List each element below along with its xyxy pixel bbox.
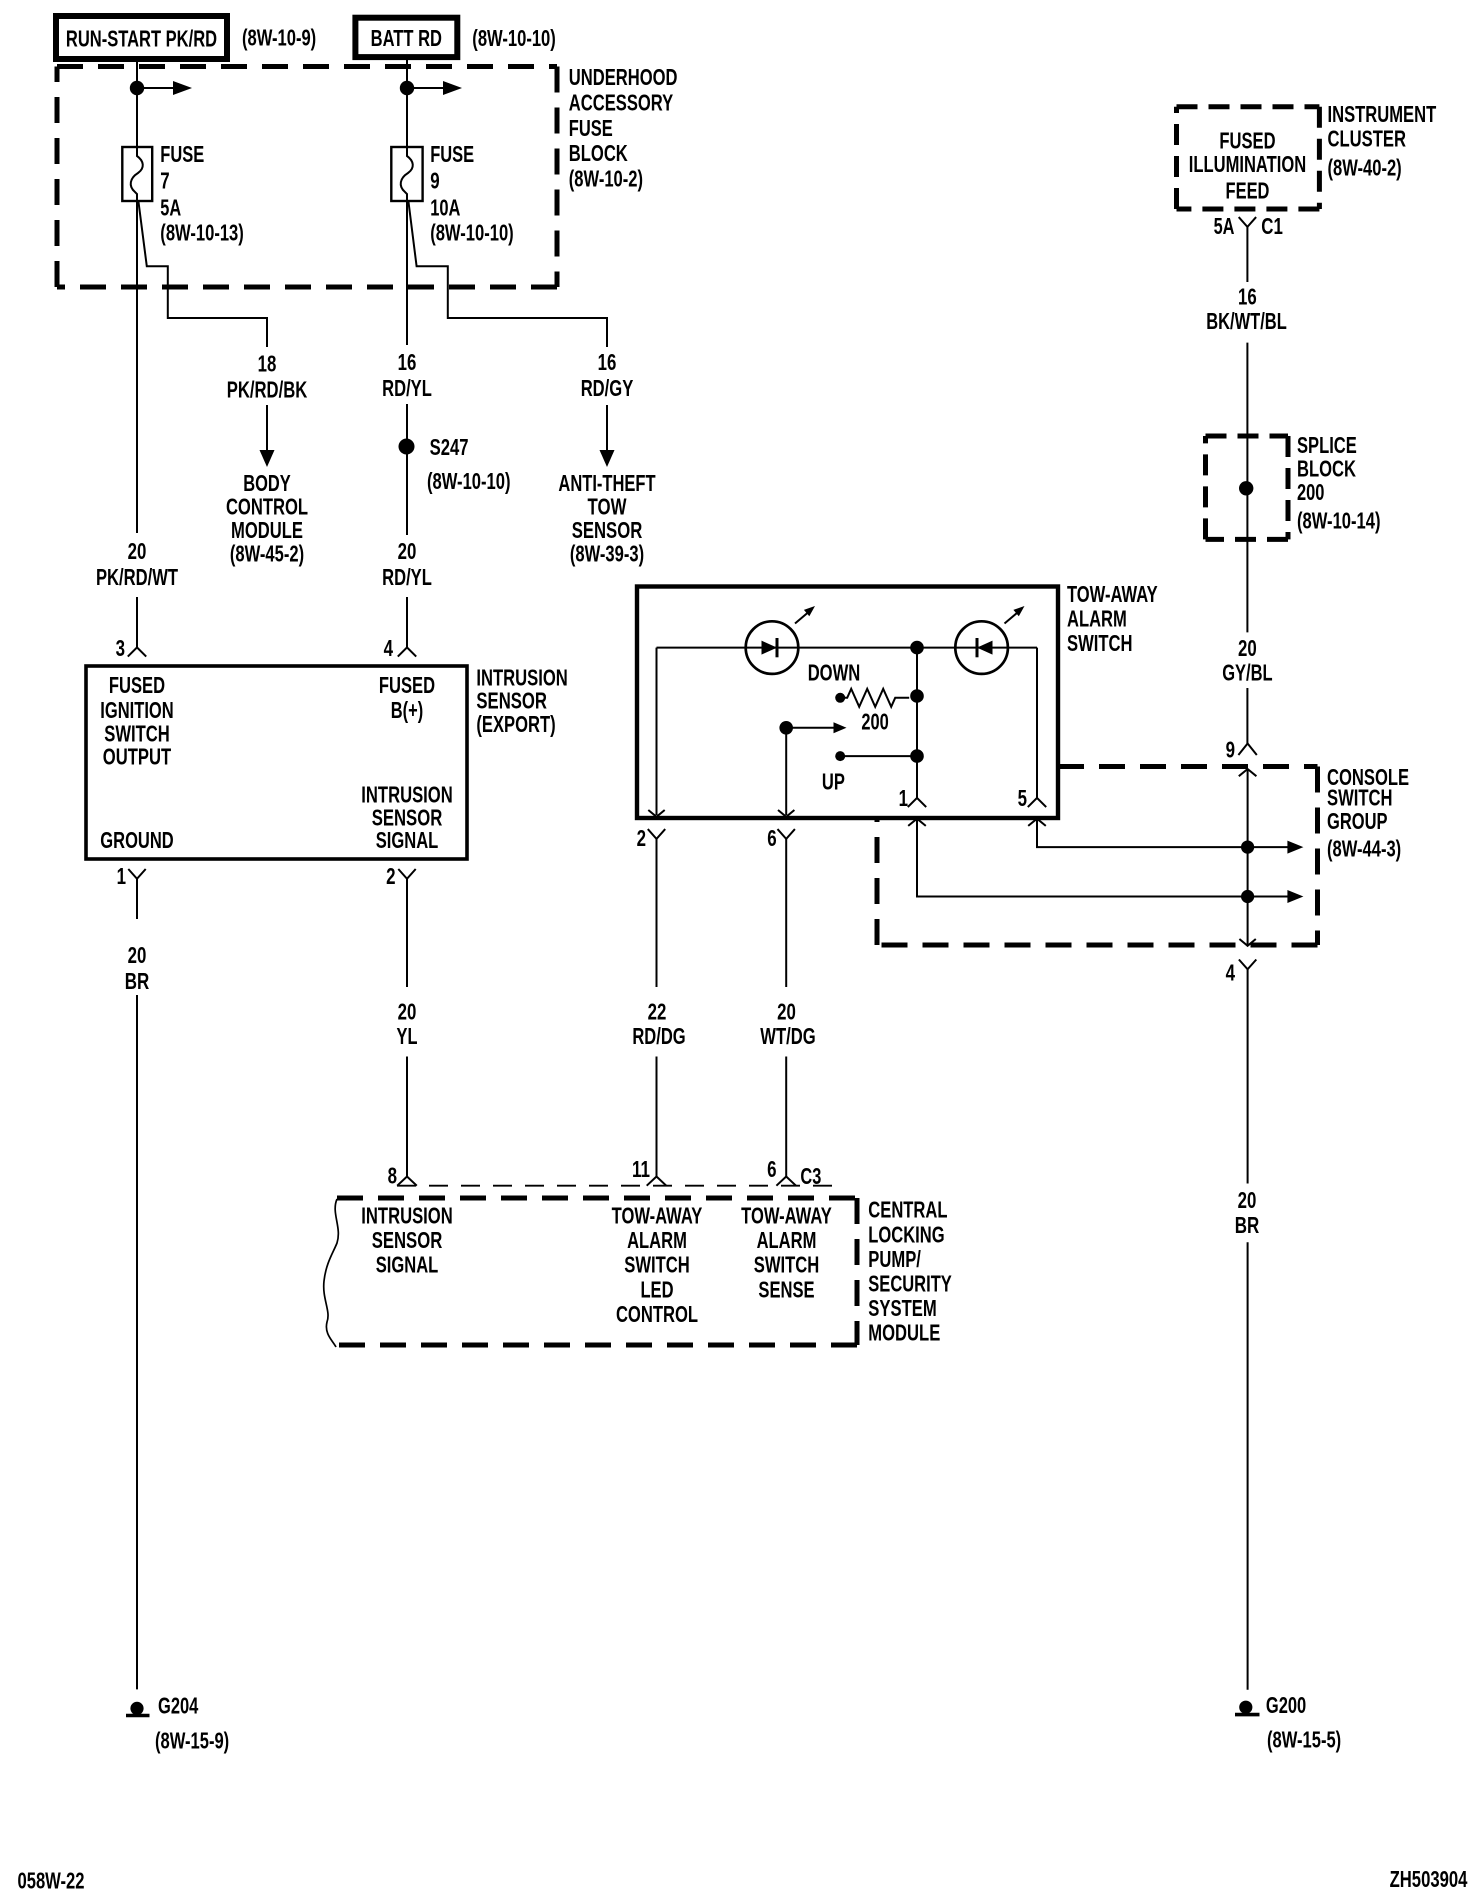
svg-text:FUSE: FUSE — [430, 141, 474, 167]
indicator lamp right (LED) — [955, 606, 1024, 674]
svg-text:RD/DG: RD/DG — [632, 1023, 685, 1049]
svg-text:INSTRUMENT: INSTRUMENT — [1328, 101, 1437, 127]
svg-text:GROUP: GROUP — [1327, 808, 1388, 834]
svg-text:CLUSTER: CLUSTER — [1328, 126, 1407, 152]
svg-text:MODULE: MODULE — [231, 517, 303, 543]
svg-text:058W-22: 058W-22 — [18, 1868, 85, 1894]
svg-text:16: 16 — [1238, 284, 1257, 310]
label DOWN — [808, 660, 861, 686]
svg-text:20: 20 — [398, 999, 417, 1025]
power feed box BATT RD — [355, 18, 457, 57]
wire label 22 RD/DG — [632, 999, 685, 1050]
svg-text:10A: 10A — [430, 195, 460, 221]
svg-text:CONTROL: CONTROL — [616, 1301, 698, 1327]
resistor 200 — [835, 689, 924, 707]
wire label 20 BR — [125, 942, 150, 994]
label CONSOLE SWITCH GROUP (8W-44-3) — [1327, 764, 1409, 862]
pin 2 of tow-away switch — [637, 810, 666, 851]
power feed box RUN-START PK/RD — [56, 16, 227, 59]
svg-text:TOW-AWAY: TOW-AWAY — [741, 1203, 832, 1229]
svg-text:18: 18 — [258, 351, 277, 377]
svg-text:16: 16 — [398, 349, 417, 375]
svg-text:SENSE: SENSE — [758, 1277, 814, 1303]
underhood accessory fuse block (dashed) — [57, 67, 557, 288]
svg-text:SWITCH: SWITCH — [624, 1252, 690, 1278]
svg-text:200: 200 — [861, 709, 888, 735]
wire BATT feed into fuse block — [406, 57, 408, 147]
svg-text:LED: LED — [640, 1277, 673, 1303]
pin label FUSED B(+) — [379, 672, 435, 723]
svg-text:INTRUSION: INTRUSION — [361, 1203, 452, 1229]
wire label 20 GY/BL — [1222, 635, 1272, 686]
pin 1 of intrusion sensor — [117, 863, 146, 889]
pin label INTRUSION SENSOR SIGNAL — [361, 782, 452, 854]
label FUSE 7 5A (8W-10-13) — [160, 141, 244, 246]
arrow to body control module — [260, 405, 275, 467]
svg-text:RD/YL: RD/YL — [382, 564, 432, 590]
wire label 20 PK/RD/WT — [96, 538, 178, 590]
console switch group box (dashed) — [877, 767, 1318, 946]
svg-text:(8W-10-13): (8W-10-13) — [160, 220, 244, 246]
label INTRUSION SENSOR (EXPORT) — [476, 665, 567, 738]
wire label 16 RD/GY — [581, 349, 634, 401]
arrow to anti-theft tow sensor — [600, 405, 615, 467]
svg-text:YL: YL — [397, 1023, 418, 1049]
svg-text:B(+): B(+) — [391, 697, 423, 723]
svg-text:BLOCK: BLOCK — [569, 140, 628, 166]
intrusion sensor box — [86, 666, 467, 859]
svg-text:1: 1 — [117, 863, 127, 889]
wire intrusion pin 2 to central locking pin 8 — [406, 879, 408, 1177]
pin label INTRUSION SENSOR SIGNAL (module) — [361, 1203, 452, 1278]
wire intrusion pin 1 to ground — [136, 879, 138, 1690]
svg-text:SECURITY: SECURITY — [868, 1271, 952, 1297]
svg-text:OUTPUT: OUTPUT — [103, 744, 171, 770]
junction dot lower with arrow — [1241, 890, 1303, 903]
label SPLICE BLOCK 200 (8W-10-14) — [1297, 432, 1381, 534]
svg-text:FEED: FEED — [1226, 178, 1270, 204]
label INSTRUMENT CLUSTER (8W-40-2) — [1328, 101, 1437, 181]
pin 5 of tow-away switch — [1018, 785, 1047, 826]
svg-text:SWITCH: SWITCH — [754, 1252, 820, 1278]
pin 6 of central locking module C3 — [767, 1156, 821, 1189]
svg-text:BR: BR — [1235, 1212, 1260, 1238]
svg-text:CONTROL: CONTROL — [226, 494, 308, 520]
wire lamp row — [657, 647, 1038, 649]
svg-text:6: 6 — [767, 1156, 776, 1182]
wire UP contact row — [835, 749, 924, 763]
splice junction dot — [1239, 481, 1253, 495]
pin label TOW-AWAY ALARM SWITCH SENSE — [741, 1203, 832, 1303]
svg-text:(EXPORT): (EXPORT) — [476, 711, 555, 737]
svg-text:5: 5 — [1018, 785, 1028, 811]
wire tow-away pin 2 to central locking pin 11 — [656, 839, 658, 1177]
connector C1 pin 5A — [1214, 213, 1283, 239]
pin 9 of console switch group — [1226, 737, 1257, 777]
svg-text:20: 20 — [128, 942, 147, 968]
svg-text:(8W-10-2): (8W-10-2) — [569, 166, 643, 192]
svg-text:DOWN: DOWN — [808, 660, 861, 686]
svg-text:BODY: BODY — [243, 470, 291, 496]
svg-text:WT/DG: WT/DG — [760, 1023, 815, 1049]
tow-away alarm switch box — [637, 587, 1058, 819]
svg-text:ALARM: ALARM — [627, 1227, 687, 1253]
pin label GROUND — [100, 827, 173, 853]
reference (8W-10-9) — [242, 25, 316, 51]
reference (8W-10-10) — [472, 25, 556, 51]
svg-text:C3: C3 — [800, 1163, 821, 1189]
wire tow-away pin 5 to console group — [1037, 819, 1248, 847]
pin 3 of intrusion sensor — [116, 635, 147, 661]
connector C3 line (thin dashed) — [397, 1185, 838, 1187]
svg-text:ZH503904: ZH503904 — [1390, 1866, 1468, 1892]
wire label 16 BK/WT/BL — [1206, 284, 1287, 335]
wire label 16 RD/YL — [382, 349, 432, 401]
svg-text:PK/RD/WT: PK/RD/WT — [96, 564, 178, 590]
svg-text:TOW-AWAY: TOW-AWAY — [612, 1203, 703, 1229]
svg-text:3: 3 — [116, 635, 125, 661]
svg-text:RUN-START PK/RD: RUN-START PK/RD — [66, 26, 217, 52]
wire label 18 PK/RD/BK — [227, 351, 308, 403]
torn edge of central locking box — [324, 1199, 339, 1347]
wire to splice S247 — [406, 404, 408, 535]
svg-text:FUSE: FUSE — [160, 141, 204, 167]
svg-text:GY/BL: GY/BL — [1222, 660, 1272, 686]
svg-text:16: 16 — [598, 349, 617, 375]
svg-text:ILLUMINATION: ILLUMINATION — [1189, 151, 1306, 177]
wire tow-away pin 1 to console group — [917, 819, 1248, 897]
svg-text:S247: S247 — [430, 434, 469, 460]
svg-text:4: 4 — [384, 635, 394, 661]
sheet id 058W-22 — [18, 1868, 85, 1894]
svg-text:200: 200 — [1297, 479, 1324, 505]
svg-text:SWITCH: SWITCH — [1327, 785, 1393, 811]
svg-text:7: 7 — [160, 168, 169, 194]
svg-text:ACCESSORY: ACCESSORY — [569, 90, 673, 116]
svg-text:G200: G200 — [1266, 1692, 1306, 1718]
svg-text:SIGNAL: SIGNAL — [376, 827, 439, 853]
svg-text:20: 20 — [777, 999, 796, 1025]
svg-text:CENTRAL: CENTRAL — [868, 1197, 947, 1223]
svg-text:UNDERHOOD: UNDERHOOD — [569, 64, 678, 90]
label UP — [822, 769, 845, 795]
svg-text:(8W-15-9): (8W-15-9) — [155, 1728, 229, 1754]
svg-text:IGNITION: IGNITION — [100, 697, 173, 723]
wire label 20 RD/YL — [382, 538, 432, 590]
label G204 (8W-15-9) — [155, 1693, 229, 1754]
svg-text:GROUND: GROUND — [100, 827, 173, 853]
label ANTI-THEFT TOW SENSOR (8W-39-3) — [558, 470, 655, 567]
svg-text:SENSOR: SENSOR — [572, 517, 643, 543]
junction lamp row — [910, 641, 924, 655]
central locking module box (dashed) — [337, 1198, 857, 1345]
indicator lamp left (LED) — [746, 606, 815, 674]
ground G204 — [126, 1702, 150, 1716]
svg-text:ANTI-THEFT: ANTI-THEFT — [558, 470, 655, 496]
svg-text:RD/YL: RD/YL — [382, 375, 432, 401]
fuse F9 — [391, 147, 422, 201]
wire label 20 YL — [397, 999, 418, 1050]
svg-text:6: 6 — [767, 825, 776, 851]
svg-text:4: 4 — [1226, 960, 1236, 986]
svg-text:22: 22 — [648, 999, 667, 1025]
wire console pin 4 to ground — [1247, 969, 1249, 1689]
value label 200 — [861, 709, 888, 735]
svg-text:C1: C1 — [1261, 213, 1283, 239]
svg-text:9: 9 — [430, 168, 439, 194]
wire C1 down — [1246, 227, 1248, 282]
label S247 (8W-10-10) — [427, 434, 511, 494]
svg-text:RD/GY: RD/GY — [581, 375, 634, 401]
svg-text:(8W-10-9): (8W-10-9) — [242, 25, 316, 51]
svg-text:1: 1 — [899, 785, 909, 811]
splice S247 junction dot — [399, 439, 415, 455]
junction dot upper with arrow — [1241, 841, 1303, 854]
svg-text:FUSE: FUSE — [569, 115, 613, 141]
svg-text:G204: G204 — [158, 1693, 198, 1719]
label BODY CONTROL MODULE (8W-45-2) — [226, 470, 308, 567]
svg-text:MODULE: MODULE — [868, 1320, 940, 1346]
svg-text:UP: UP — [822, 769, 845, 795]
svg-text:PUMP/: PUMP/ — [868, 1246, 921, 1272]
svg-text:2: 2 — [637, 825, 646, 851]
label G200 (8W-15-5) — [1266, 1692, 1341, 1753]
svg-text:9: 9 — [1226, 737, 1235, 763]
label CENTRAL LOCKING PUMP/ SECURITY SYSTEM MODULE — [868, 1197, 952, 1346]
label UNDERHOOD ACCESSORY FUSE BLOCK (8W-10-2) — [569, 64, 678, 192]
svg-text:(8W-40-2): (8W-40-2) — [1328, 155, 1402, 181]
svg-text:(8W-45-2): (8W-45-2) — [230, 541, 304, 567]
wire fuse F7 to intrusion sensor pin 3 — [136, 201, 138, 647]
svg-text:ALARM: ALARM — [757, 1227, 817, 1253]
svg-text:LOCKING: LOCKING — [868, 1222, 944, 1248]
svg-text:5A: 5A — [1214, 213, 1235, 239]
svg-text:20: 20 — [128, 538, 147, 564]
svg-text:SPLICE: SPLICE — [1297, 432, 1357, 458]
pin 2 of intrusion sensor — [386, 863, 416, 889]
svg-text:(8W-10-10): (8W-10-10) — [430, 220, 514, 246]
svg-text:20: 20 — [1238, 635, 1257, 661]
svg-text:BK/WT/BL: BK/WT/BL — [1206, 308, 1287, 334]
svg-text:20: 20 — [1238, 1187, 1257, 1213]
svg-text:SENSOR: SENSOR — [372, 1227, 443, 1253]
svg-text:(8W-10-10): (8W-10-10) — [472, 25, 556, 51]
fuse F7 — [122, 147, 152, 201]
branch wire fuse F9 to anti-theft tow sensor — [409, 202, 608, 347]
wire tow-away pin 6 to central locking pin 6 — [785, 839, 787, 1177]
wire label 20 WT/DG — [760, 999, 815, 1050]
splice block 200 box (dashed) — [1206, 436, 1289, 539]
svg-text:(8W-44-3): (8W-44-3) — [1327, 836, 1401, 862]
pin label FUSED IGNITION SWITCH OUTPUT — [100, 672, 173, 770]
svg-text:BLOCK: BLOCK — [1297, 456, 1356, 482]
svg-text:SIGNAL: SIGNAL — [376, 1252, 439, 1278]
wire to console pin 9 — [1246, 688, 1248, 744]
svg-text:SYSTEM: SYSTEM — [868, 1295, 936, 1321]
label FUSED ILLUMINATION FEED — [1189, 128, 1306, 204]
branch wire fuse F7 to body control module — [139, 202, 268, 347]
svg-text:SENSOR: SENSOR — [476, 688, 547, 714]
pin 6 of tow-away switch — [767, 810, 795, 851]
wire to intrusion sensor pin 4 — [406, 597, 408, 647]
svg-text:BR: BR — [125, 968, 150, 994]
pin 8 of central locking module — [388, 1163, 417, 1189]
svg-text:(8W-10-14): (8W-10-14) — [1297, 508, 1381, 534]
pin 11 of central locking module — [632, 1156, 666, 1186]
pin label TOW-AWAY ALARM SWITCH LED CONTROL — [612, 1203, 703, 1328]
svg-text:SWITCH: SWITCH — [1067, 630, 1133, 656]
svg-text:TOW-AWAY: TOW-AWAY — [1067, 581, 1158, 607]
wire common vertical to pin 1 — [916, 648, 918, 798]
svg-text:ALARM: ALARM — [1067, 606, 1127, 632]
pin 4 of console switch group — [1226, 939, 1257, 986]
label TOW-AWAY ALARM SWITCH — [1067, 581, 1158, 656]
ground G200 — [1235, 1701, 1260, 1715]
svg-text:TOW: TOW — [588, 494, 627, 520]
junction dot with feed arrow (batt) — [400, 81, 462, 95]
wire to splice block — [1246, 343, 1248, 633]
svg-text:BATT RD: BATT RD — [371, 25, 442, 51]
svg-text:FUSED: FUSED — [1219, 128, 1275, 154]
svg-text:11: 11 — [632, 1156, 650, 1182]
svg-text:5A: 5A — [160, 195, 181, 221]
pin 1 of tow-away switch — [899, 785, 927, 826]
wire wiper vertical to pin 6 — [785, 728, 787, 815]
instrument cluster box (dashed) — [1177, 107, 1320, 209]
wire lamp row to pin 5 — [1036, 648, 1038, 798]
junction dot with feed arrow (run-start) — [130, 81, 192, 95]
wire label 20 BR (right) — [1235, 1187, 1260, 1238]
wire fuse F9 down — [406, 201, 408, 345]
switch wiper junction and arrow — [779, 721, 846, 735]
wire console internal — [1247, 769, 1249, 945]
svg-text:(8W-15-5): (8W-15-5) — [1267, 1727, 1341, 1753]
sheet id ZH503904 — [1390, 1866, 1468, 1892]
svg-text:FUSED: FUSED — [379, 672, 435, 698]
wire lamp row to pin 2 — [656, 648, 658, 815]
pin 4 of intrusion sensor — [384, 635, 417, 661]
svg-text:2: 2 — [386, 863, 395, 889]
svg-text:(8W-10-10): (8W-10-10) — [427, 468, 511, 494]
svg-text:PK/RD/BK: PK/RD/BK — [227, 377, 308, 403]
svg-text:FUSED: FUSED — [109, 672, 165, 698]
svg-text:8: 8 — [388, 1163, 398, 1189]
label FUSE 9 10A (8W-10-10) — [430, 141, 514, 246]
svg-text:20: 20 — [398, 538, 417, 564]
wire RUN-START feed into fuse block — [136, 59, 138, 147]
svg-text:(8W-39-3): (8W-39-3) — [570, 541, 644, 567]
